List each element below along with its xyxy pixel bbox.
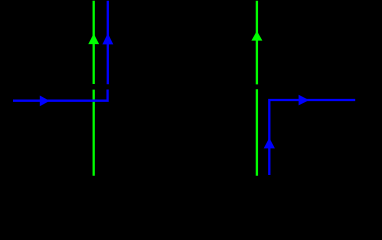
wire: right green branch upper segment (current I3) (256, 1, 258, 85)
wire: left green branch upper segment (current I1) (93, 1, 95, 84)
arrowhead: left blue current arrow (up) (102, 33, 113, 44)
wire: right green branch lower segment (256, 89, 258, 176)
wire: left green branch lower segment (93, 90, 95, 176)
wire: left blue branch upper segment (current I2) (107, 1, 109, 85)
wire: left blue feed elbow (horizontal into node) (13, 90, 108, 101)
arrowhead: left blue current arrow (right) (40, 96, 50, 107)
arrowhead: right blue current arrow (right) (299, 95, 310, 106)
wire: right blue return elbow (up then right out) (269, 100, 355, 175)
arrowhead: right blue current arrow (up) (264, 138, 275, 149)
arrowhead: left green current arrow (up) (88, 34, 99, 45)
arrowhead: right green current arrow (up) (251, 31, 262, 41)
